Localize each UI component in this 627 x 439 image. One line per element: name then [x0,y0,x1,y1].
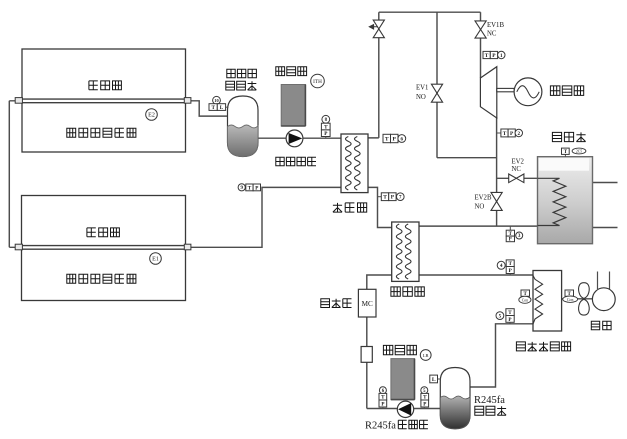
wire: oil tank to evaporator (through oil pump) [259,137,342,139]
fan motor [592,288,615,311]
wire: EV1 bypass branch [437,12,497,158]
valve EV1 NO [431,84,442,102]
svg-text:L: L [432,377,436,383]
sensor T/P 6 at evaporator vapor outlet [383,134,391,142]
svg-text:P: P [392,137,396,143]
label: collector 1 (ji re qi) [89,81,122,90]
R245fa tank liquid with wavy surface [440,396,470,429]
absorber tube 2 [16,246,190,250]
condenser coil zigzag [533,276,543,325]
generator circle with sine [514,78,542,106]
label: heat storage tank [552,132,585,141]
svg-text:R245fa: R245fa [474,395,505,406]
fan blades [579,283,590,315]
label: flow meter [321,299,352,308]
wire: top manifold [379,11,481,13]
wire: EV2 branch to heat storage tank [497,177,538,179]
flow meter MC box [358,289,376,317]
wire: turbine outlet down-comer [496,117,498,226]
valve EV2 NC [509,174,524,183]
label: collector 2 [87,228,120,237]
svg-text:NO: NO [475,204,485,211]
sensor T/Con right of condenser [565,290,574,296]
sensor 8/T/P stack at evaporator oil inlet [322,115,330,123]
wire: collector1 outlet to oil tank [190,101,228,116]
wire: recuperator cold outlet to flow meter [367,275,392,289]
svg-text:MC: MC [362,300,373,308]
svg-text:2C5: 2C5 [576,150,582,154]
label: evaporator [333,203,367,212]
collector box 1 [22,49,186,152]
air-cooled condenser body [533,271,562,332]
label: inverter (generator) [550,86,583,96]
sensor 9/T/P on oil return line [238,184,245,191]
svg-text:T: T [385,137,389,143]
label: parabolic reflector 1 [67,128,136,137]
label: air cooled condenser [516,342,570,351]
sensor T + tag oval on storage tank top [564,154,566,157]
fan mount lines [598,272,610,292]
label: inverter (pump) [383,345,416,354]
sensor 5/T/P on condenser outlet line [496,312,504,320]
sensor T/P 2 at turbine outlet [497,132,501,134]
wire: recuperator top to heat storage tank bottom [419,225,538,227]
svg-text:EV2B: EV2B [475,195,492,202]
sensor 5/T/P at pump suction [421,387,428,394]
label: oil pump [276,157,316,165]
svg-text:Con: Con [567,298,573,302]
sensor T/Con left of condenser [521,290,530,296]
tube 2 right connector [184,244,191,250]
tube 2 left connector [15,244,22,250]
wire: condenser outlet to R245fa tank [470,324,533,387]
absorber tube 1 [16,99,190,103]
sight glass box [361,347,372,363]
check valve arrow [369,25,378,29]
oil storage tank vessel [228,96,259,157]
sensor 10/TL at oil tank inlet [226,106,229,108]
svg-text:T: T [503,131,507,137]
inverter box (pump drive) [391,359,415,400]
label circle E2 [146,109,158,121]
recuperator body [392,222,419,281]
turbine-generator shaft [497,88,514,91]
svg-text:E2: E2 [148,113,155,119]
svg-text:EV1: EV1 [416,85,428,92]
wire: turbine inlet branch through EV1B [480,12,482,78]
svg-text:NC: NC [512,166,522,173]
svg-text:Con: Con [522,298,528,302]
svg-text:NO: NO [416,94,426,101]
label: parabolic reflector 2 [67,274,136,283]
tube 1 right connector [184,98,191,104]
wire: recuperator to condenser [419,274,533,276]
sensor T/P 7 at evaporator bottom outlet [378,196,382,198]
evaporator coil zigzags [346,137,361,191]
sensor L at R245fa tank [430,375,438,383]
label: heat-transfer-oil storage tank (2 lines) [227,69,257,77]
label: fan [591,321,611,329]
turbine / expander [480,67,496,118]
svg-text:T: T [248,185,252,191]
svg-text:NC: NC [487,31,497,38]
svg-text:T: T [485,53,489,59]
valve EV1B NC [475,21,486,38]
circle LR [420,350,431,361]
wire: left header connecting both collector tubes [9,101,16,248]
tube 1 left connector [15,98,22,104]
evaporator body [341,134,368,193]
sensor T/P 1 at turbine inlet [483,51,490,58]
wire: evaporator bottom to recuperator hot inlet [368,187,392,227]
sensor T/P 3 below storage line [509,226,511,230]
svg-text:T: T [383,195,387,201]
inverter box (oil loop) [281,85,305,127]
recuperator coil zigzags [396,224,411,279]
label circle E1 [150,253,162,265]
svg-text:T: T [211,105,215,111]
wire: heat storage tank right stubs [593,183,618,228]
label: recuperator [391,287,424,296]
wire: condenser to fan stub [562,298,593,300]
svg-text:R245fa: R245fa [365,421,396,432]
R245fa storage tank vessel [440,368,470,429]
label: inverter (top) [276,67,307,76]
R245fa working fluid pump [397,401,413,417]
heat storage tank coil [538,178,566,225]
oil tank liquid with wavy surface [228,125,259,157]
collector box 2 [22,196,186,301]
svg-text:LR: LR [423,353,430,358]
valve EV2B NO [491,192,502,210]
wire: sight glass to pump suction line [367,362,441,409]
svg-text:ITH: ITH [313,79,322,85]
wire: evaporator R245fa outlet riser [368,12,379,138]
wire: flow meter to sight glass [366,317,368,347]
sensor 4/T/P on recuperator-condenser line [497,261,505,269]
heat storage tank body [538,157,593,244]
svg-text:L: L [220,105,224,111]
svg-text:E1: E1 [152,257,159,263]
circle ITH [311,74,325,88]
svg-text:P: P [509,238,512,243]
svg-text:EV2: EV2 [512,159,525,166]
wire: evaporator oil return to collector2 [190,187,341,247]
sensor 6/T/P at pump discharge [379,387,386,394]
check valve on vapor riser [373,20,384,38]
svg-text:EV1B: EV1B [487,22,504,29]
oil pump [286,130,303,147]
